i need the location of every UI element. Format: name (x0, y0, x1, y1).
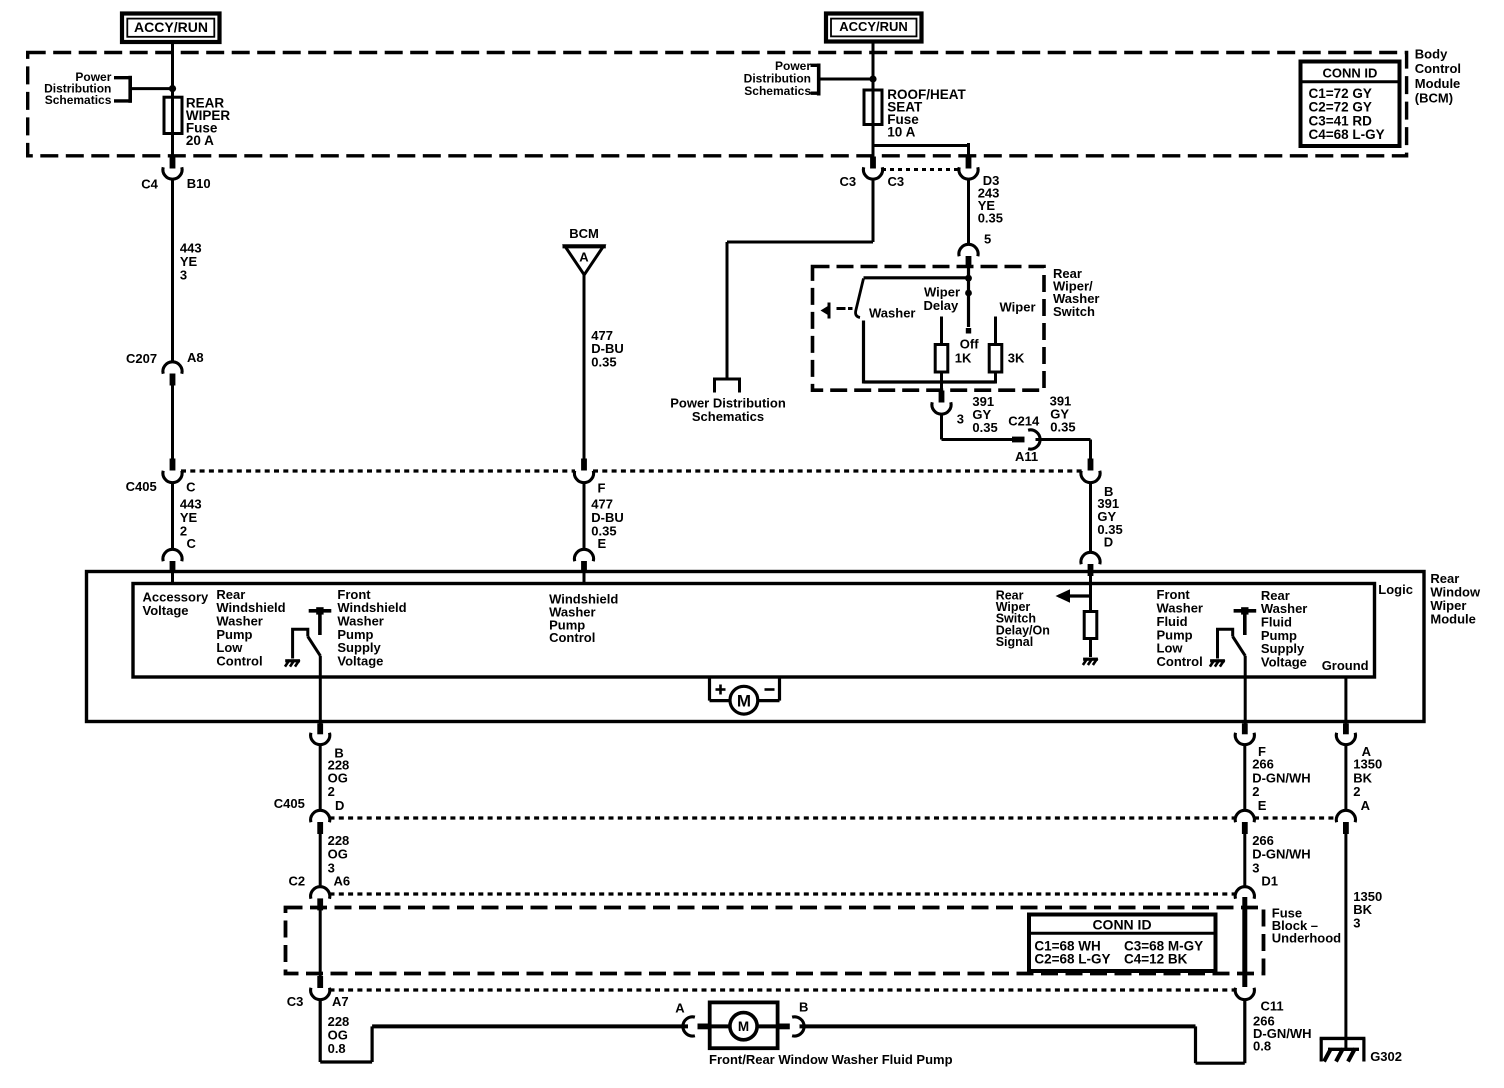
svg-text:Logic: Logic (1378, 582, 1413, 597)
svg-text:Ground: Ground (1322, 658, 1369, 673)
svg-text:0.8: 0.8 (328, 1041, 346, 1056)
svg-text:Control: Control (216, 653, 262, 668)
svg-text:C3: C3 (840, 174, 857, 189)
svg-text:A11: A11 (1015, 449, 1038, 464)
svg-text:ACCY/RUN: ACCY/RUN (134, 19, 208, 35)
svg-text:1350: 1350 (1353, 757, 1382, 772)
svg-text:2: 2 (1252, 784, 1259, 799)
svg-text:A6: A6 (334, 873, 351, 888)
svg-text:Schematics: Schematics (744, 84, 811, 98)
svg-text:3: 3 (180, 268, 187, 283)
svg-text:Control: Control (1157, 654, 1203, 669)
svg-text:Voltage: Voltage (143, 603, 189, 618)
svg-text:A: A (579, 249, 589, 264)
svg-text:B: B (799, 999, 808, 1014)
svg-text:E: E (1258, 798, 1267, 813)
svg-text:3: 3 (1353, 915, 1360, 930)
svg-text:0.35: 0.35 (978, 210, 1003, 225)
svg-text:2: 2 (328, 784, 335, 799)
svg-text:Module: Module (1430, 612, 1476, 627)
svg-text:Control: Control (1415, 61, 1461, 76)
svg-text:C207: C207 (126, 351, 157, 366)
svg-text:0.35: 0.35 (972, 420, 997, 435)
svg-text:Control: Control (549, 630, 595, 645)
svg-text:Front/Rear Window Washer Fluid: Front/Rear Window Washer Fluid Pump (709, 1052, 953, 1067)
svg-text:3: 3 (957, 412, 964, 427)
svg-text:Off: Off (960, 337, 979, 352)
svg-text:A: A (675, 1000, 685, 1015)
svg-text:Body: Body (1415, 46, 1448, 61)
svg-text:Underhood: Underhood (1272, 931, 1341, 946)
svg-text:Wiper: Wiper (1000, 299, 1036, 314)
svg-text:D1: D1 (1261, 873, 1278, 888)
svg-text:Signal: Signal (996, 635, 1034, 649)
svg-text:D-GN/WH: D-GN/WH (1252, 770, 1311, 785)
svg-text:C2: C2 (289, 873, 306, 888)
svg-text:OG: OG (328, 847, 348, 862)
svg-text:Switch: Switch (1053, 304, 1095, 319)
svg-text:C4=68 L-GY: C4=68 L-GY (1309, 127, 1385, 142)
svg-text:M: M (737, 692, 751, 711)
svg-text:Voltage: Voltage (1261, 654, 1307, 669)
svg-text:0.35: 0.35 (591, 355, 616, 370)
svg-text:266: 266 (1252, 757, 1274, 772)
svg-text:Module: Module (1415, 76, 1461, 91)
svg-text:D-GN/WH: D-GN/WH (1252, 847, 1311, 862)
svg-text:Schematics: Schematics (45, 93, 112, 107)
svg-text:C4=12 BK: C4=12 BK (1124, 951, 1188, 966)
svg-text:A7: A7 (332, 994, 349, 1009)
svg-text:C: C (186, 480, 196, 495)
svg-text:Delay: Delay (924, 298, 959, 313)
svg-text:10 A: 10 A (887, 124, 915, 139)
svg-text:C4: C4 (141, 177, 158, 192)
svg-text:C2=68 L-GY: C2=68 L-GY (1034, 951, 1110, 966)
svg-text:M: M (738, 1019, 749, 1034)
svg-text:(BCM): (BCM) (1415, 91, 1453, 106)
svg-text:1K: 1K (955, 351, 972, 366)
svg-text:Schematics: Schematics (692, 409, 764, 424)
svg-text:BCM: BCM (569, 226, 599, 241)
svg-text:C405: C405 (126, 479, 157, 494)
svg-text:C405: C405 (274, 796, 305, 811)
svg-text:C11: C11 (1261, 998, 1284, 1013)
svg-text:C3: C3 (888, 174, 905, 189)
svg-text:CONN ID: CONN ID (1323, 65, 1378, 80)
svg-text:D: D (1104, 535, 1113, 550)
svg-text:C3: C3 (287, 994, 304, 1009)
svg-text:Voltage: Voltage (337, 653, 383, 668)
svg-text:CONN ID: CONN ID (1092, 917, 1151, 933)
svg-text:Washer: Washer (869, 305, 915, 320)
svg-text:E: E (598, 536, 607, 551)
svg-text:C214: C214 (1008, 413, 1040, 428)
svg-text:0.35: 0.35 (1050, 419, 1075, 434)
svg-text:D: D (335, 798, 344, 813)
svg-text:F: F (598, 481, 606, 496)
svg-text:A: A (1361, 798, 1371, 813)
svg-text:B10: B10 (187, 176, 211, 191)
svg-text:3K: 3K (1008, 351, 1025, 366)
svg-text:C: C (187, 536, 197, 551)
svg-text:BK: BK (1353, 770, 1372, 785)
svg-text:266: 266 (1252, 833, 1274, 848)
svg-text:G302: G302 (1370, 1049, 1402, 1064)
svg-text:20 A: 20 A (186, 133, 214, 148)
svg-text:3: 3 (1252, 861, 1259, 876)
svg-text:228: 228 (328, 833, 350, 848)
svg-text:A8: A8 (187, 350, 204, 365)
svg-text:2: 2 (1353, 784, 1360, 799)
svg-text:0.8: 0.8 (1253, 1039, 1271, 1054)
svg-text:5: 5 (984, 232, 991, 247)
svg-text:ACCY/RUN: ACCY/RUN (839, 19, 908, 34)
